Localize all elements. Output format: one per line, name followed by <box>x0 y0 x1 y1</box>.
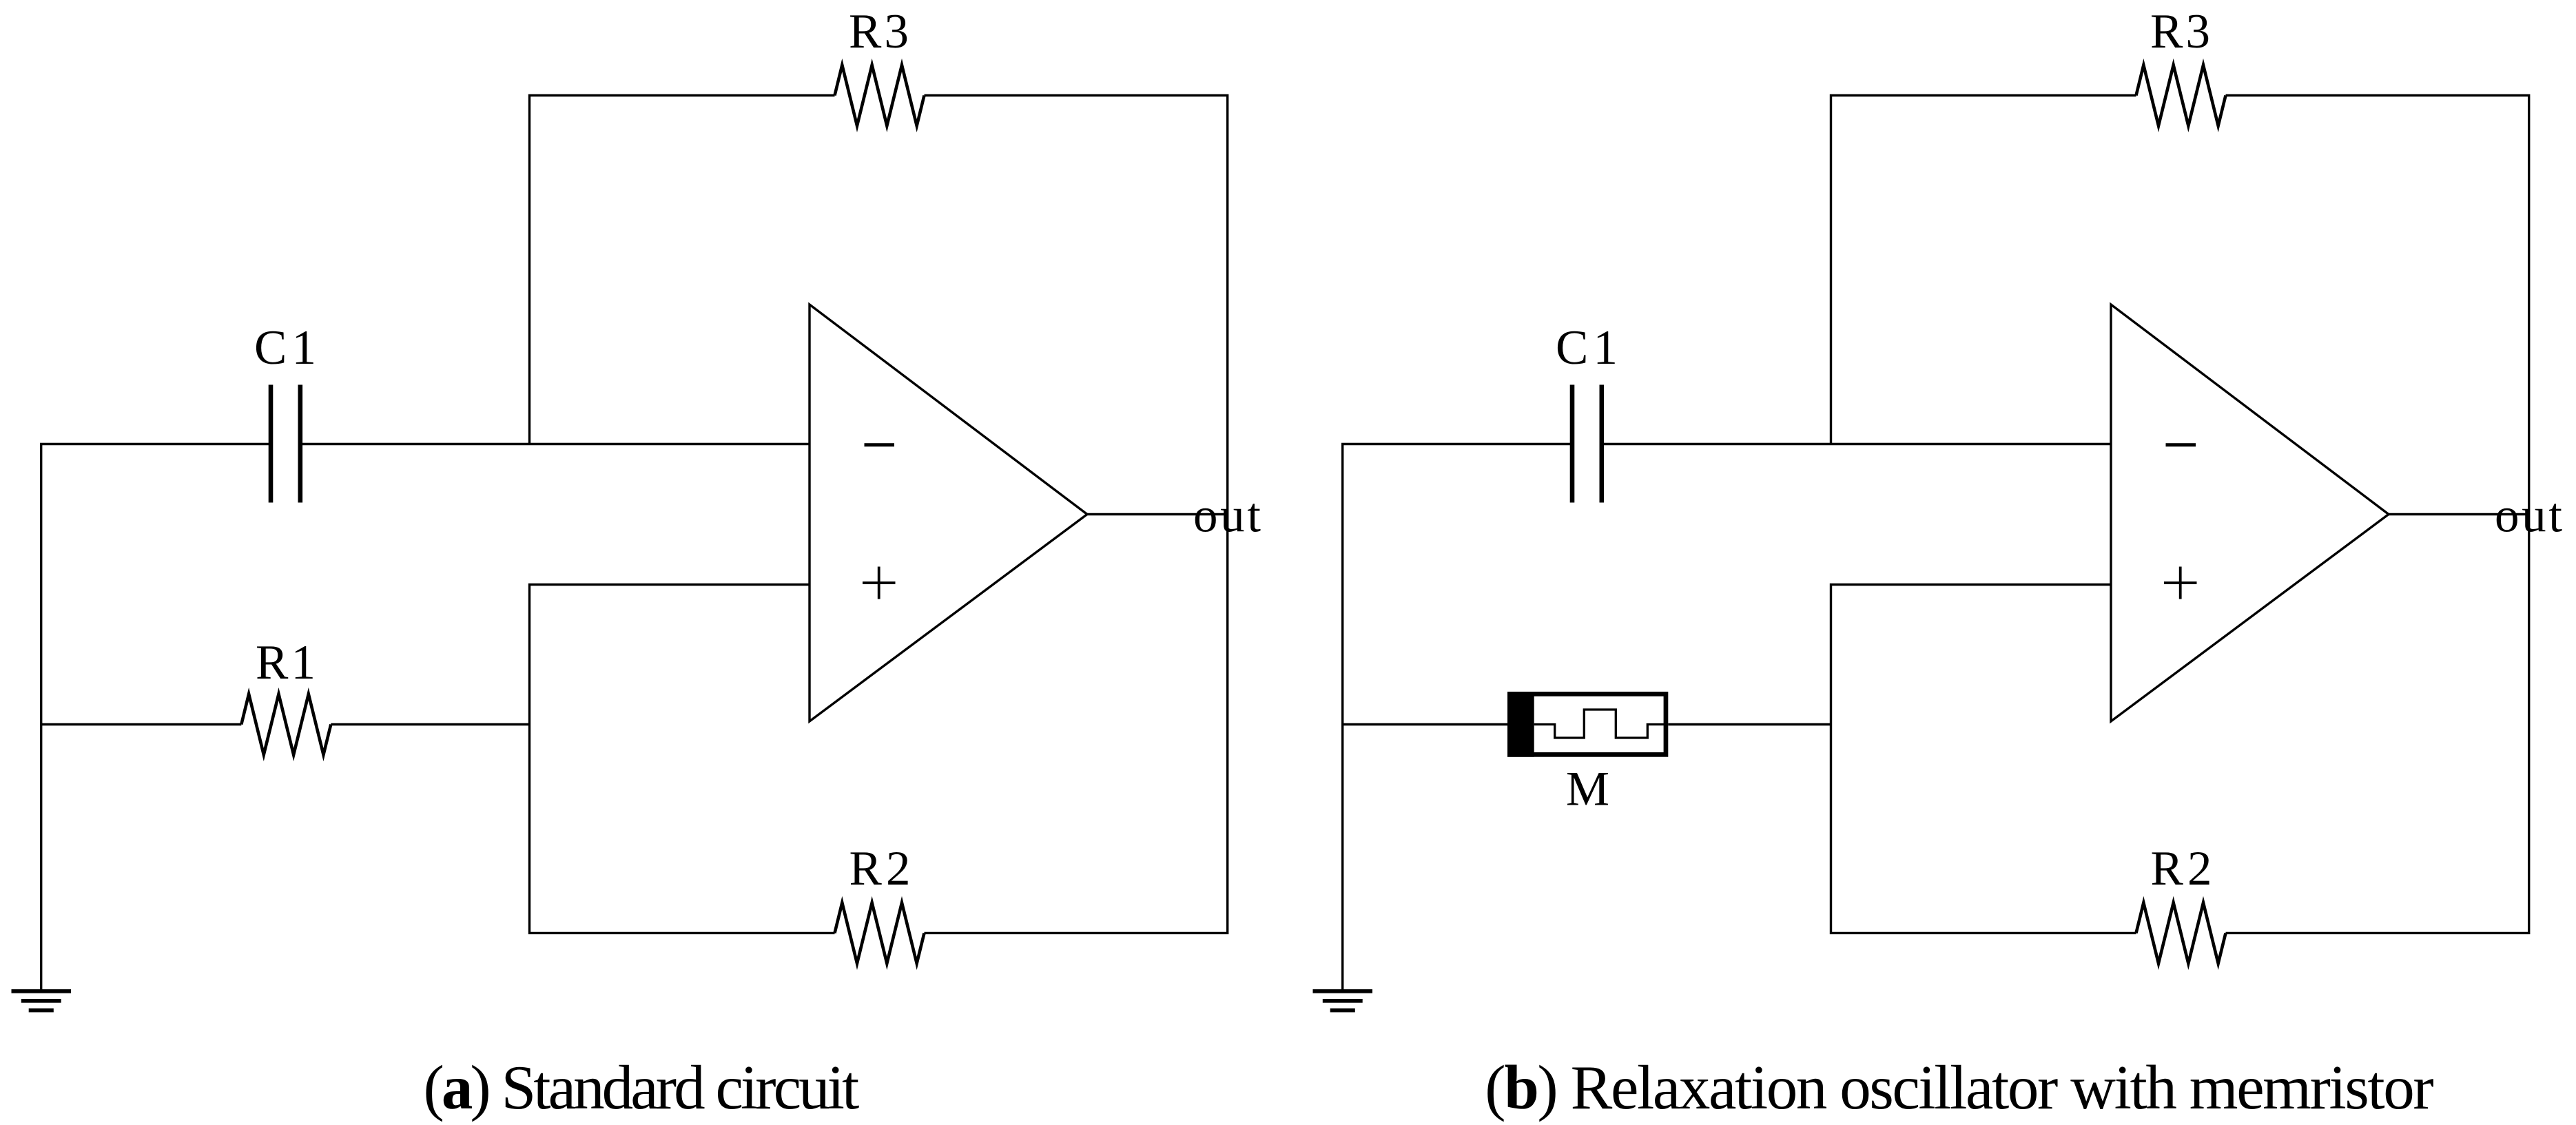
resistor R2 zigzag (a) <box>835 902 925 963</box>
resistor R2 zigzag (b) <box>2136 902 2226 963</box>
wire: R3 right lead, right vertical rail, R2 right lead (a) <box>925 96 1228 933</box>
wire: C1 left lead and left vertical rail (b) <box>1343 444 1570 990</box>
op-amp plus sign (b) <box>2164 567 2197 599</box>
svg-text:R2: R2 <box>849 842 911 896</box>
op-amp minus sign (a) <box>865 443 895 446</box>
wire: R1 left lead (a) <box>41 723 242 725</box>
ground (a) <box>12 989 72 993</box>
svg-text:out: out <box>1193 489 1261 543</box>
svg-text:R3: R3 <box>849 5 909 59</box>
svg-text:M: M <box>1566 762 1609 816</box>
svg-text:out: out <box>2495 489 2562 543</box>
capacitor C1 plates (b) <box>1570 385 1575 503</box>
resistor R3 zigzag (a) <box>835 65 925 126</box>
memristor M body (b) <box>1507 692 1666 757</box>
wire: feedback left vertical and top lead to R3 (a) <box>530 96 835 444</box>
svg-text:C1: C1 <box>1556 321 1618 375</box>
wire: C1 left lead and left vertical rail (a) <box>41 444 269 990</box>
op-amp U1 triangle (a) <box>810 305 1087 721</box>
op-amp minus sign (b) <box>2166 443 2196 446</box>
svg-text:R1: R1 <box>256 636 316 690</box>
wire: R2 left lead, non-inverting vertical, plus input lead (b) <box>1831 585 2136 933</box>
svg-text:C1: C1 <box>254 321 316 375</box>
resistor R1 zigzag (a) <box>241 694 331 755</box>
svg-text:R3: R3 <box>2150 5 2210 59</box>
wire: R3 right lead, right vertical rail, R2 right lead (b) <box>2226 96 2529 933</box>
wire: feedback left vertical and top lead to R3 (b) <box>1831 96 2136 444</box>
wire: C1 right lead to op-amp inverting input (b) <box>1604 443 2111 445</box>
wire: op-amp output to right rail (a) <box>1087 513 1228 515</box>
op-amp plus sign (a) <box>863 567 896 599</box>
svg-text:(b) Relaxation oscillator with: (b) Relaxation oscillator with memristor <box>1485 1053 2433 1122</box>
wire: R2 left lead, non-inverting vertical, plus input lead (a) <box>530 585 835 933</box>
svg-text:(a) Standard circuit: (a) Standard circuit <box>424 1053 860 1122</box>
wire: C1 right lead to op-amp inverting input (a) <box>302 443 810 445</box>
ground (b) <box>1313 989 1373 993</box>
capacitor C1 plates (a) <box>269 385 274 503</box>
resistor R3 zigzag (b) <box>2136 65 2226 126</box>
wire: op-amp output to right rail (b) <box>2389 513 2529 515</box>
wire: memristor right lead (b) <box>1668 723 1831 725</box>
wire: memristor left lead (b) <box>1343 723 1507 725</box>
svg-text:R2: R2 <box>2151 842 2212 896</box>
wire: R1 right lead (a) <box>331 723 529 725</box>
op-amp U2 triangle (b) <box>2111 305 2389 721</box>
